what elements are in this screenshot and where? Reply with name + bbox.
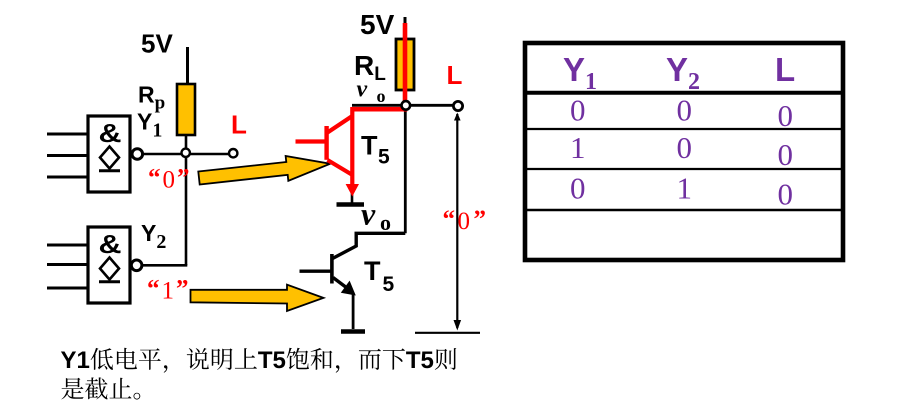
gate U1 input wire 1 <box>47 133 88 136</box>
lower T5 emitter arrowhead <box>341 281 356 296</box>
svg-text:o: o <box>380 210 391 235</box>
svg-text:5: 5 <box>378 146 390 169</box>
svg-text:v: v <box>361 196 376 232</box>
gate U1 input wire 2 <box>47 154 88 157</box>
svg-text:T: T <box>364 256 381 286</box>
table row line 1 <box>523 128 845 130</box>
svg-text:“1”: “1” <box>147 276 189 305</box>
svg-text:1: 1 <box>570 130 586 165</box>
svg-text:5: 5 <box>383 273 395 296</box>
gate U1 output bubble <box>132 149 143 160</box>
ground reference line (bottom right) <box>415 332 480 334</box>
black stub emitter to ground <box>351 193 354 204</box>
svg-text:&: & <box>99 120 122 148</box>
arrow (gold) from Y1 toward upper T5 <box>198 151 332 190</box>
gate U2 input wire 2 <box>47 263 88 266</box>
table header separator <box>523 91 845 95</box>
svg-text:0: 0 <box>778 137 794 172</box>
arrow (gold) from Y2 toward lower T5 <box>191 285 324 311</box>
dimension line "0" between L and ground: vertical with arrowheads <box>456 114 458 328</box>
svg-text:0: 0 <box>570 92 586 127</box>
caption text line 2: 是截止。 <box>61 377 140 399</box>
gate U2 output bubble <box>131 260 142 271</box>
svg-text:0: 0 <box>778 177 794 212</box>
lower T5 emitter slant <box>333 278 349 290</box>
gate U1 (open-collector AND) body <box>88 116 130 192</box>
svg-text:T: T <box>361 131 378 161</box>
gate U2 input wire 3 <box>47 287 88 290</box>
red upper T5 base lead <box>296 139 327 143</box>
resistor Rp <box>177 84 195 135</box>
gate U2 diamond underline <box>99 280 120 283</box>
svg-text:L: L <box>447 60 463 90</box>
dimension top arrowhead <box>454 113 461 121</box>
lower T5 base bar <box>330 254 334 284</box>
svg-text:“0”: “0” <box>148 165 190 194</box>
red upper transistor T5: collector vertical / emitter shaft <box>350 107 354 188</box>
svg-text:0: 0 <box>677 130 693 165</box>
svg-text:0: 0 <box>677 92 693 127</box>
svg-text:0: 0 <box>778 98 794 133</box>
caption text line 1: Y1低电平，说明上T5饱和，而下T5则 <box>61 348 456 373</box>
red upper T5 base bar <box>324 126 328 160</box>
node A junction circle <box>182 149 190 157</box>
truth table outer frame <box>525 43 843 260</box>
red emitter arrowhead <box>346 184 359 197</box>
lower transistor T5 collector path <box>333 233 406 258</box>
wire U1 output to node A <box>143 153 230 156</box>
red upper T5 emitter slant <box>328 160 353 175</box>
svg-text:L: L <box>231 110 247 140</box>
svg-text:0: 0 <box>570 170 586 205</box>
node A2 junction circle <box>402 101 411 110</box>
svg-text:“0”: “0” <box>443 206 487 235</box>
gate U1 open-collector diamond symbol <box>100 147 119 169</box>
wire Rp bottom to Y2 wire (vertical bus) <box>185 135 188 265</box>
terminal circle L (left) <box>229 149 237 157</box>
gate U2 input wire 1 <box>47 244 88 247</box>
svg-text:&: & <box>99 231 122 259</box>
red upper T5 collector slant <box>328 117 352 133</box>
wire stub above RL <box>404 17 407 30</box>
resistor RL <box>396 39 414 90</box>
gate U2 open-collector diamond symbol <box>100 258 119 280</box>
svg-text:1: 1 <box>677 170 693 205</box>
gate U2 (open-collector AND) body <box>88 227 130 303</box>
ground bar (upper T5) <box>337 202 365 207</box>
svg-text:o: o <box>377 86 386 106</box>
ground bar (lower T5) <box>341 329 365 334</box>
wire 5V to resistor Rp <box>186 47 189 85</box>
red current path: 5V through RL to node <box>352 23 405 109</box>
wire U2 output to vertical bus <box>143 264 188 267</box>
wire node A2 down to lower T5 collector <box>404 105 407 233</box>
lower T5 base lead <box>300 270 332 273</box>
table row line 3 <box>523 209 845 212</box>
gate U1 input wire 3 <box>47 176 88 179</box>
wire node A2 to terminal L2 <box>352 104 454 107</box>
svg-text:v: v <box>357 77 368 103</box>
svg-text:5V: 5V <box>141 29 173 59</box>
terminal circle L (right) <box>453 101 462 110</box>
lower T5 emitter wire <box>352 294 355 329</box>
dimension bottom arrowhead <box>454 320 462 331</box>
gate U1 diamond underline <box>99 169 120 172</box>
svg-text:L: L <box>775 51 795 88</box>
table row line 2 <box>523 168 845 170</box>
svg-text:5V: 5V <box>360 9 395 40</box>
